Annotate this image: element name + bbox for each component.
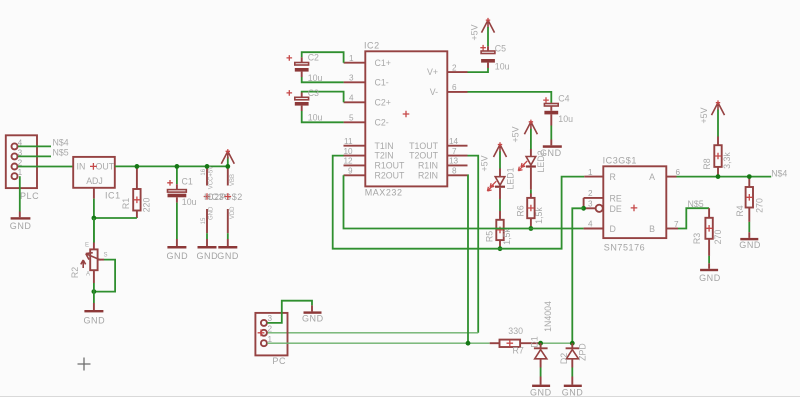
svg-text:220: 220 [141,198,151,213]
capacitor C4 [543,93,573,125]
svg-text:V+: V+ [427,67,438,77]
svg-text:D1: D1 [529,336,539,347]
wire PC pin1 to R7 [267,342,489,344]
svg-text:ZPD: ZPD [577,343,587,361]
bottom edge artifact line [0,396,800,397]
wire IC1 ADJ down [93,188,95,243]
svg-text:GND: GND [84,315,106,325]
connector PC [255,313,287,366]
pin 4 stub (D) [584,220,604,229]
pin 9 stub [344,167,366,176]
power pins IC2P (VCC pin16 / GND pin15) [201,166,226,233]
svg-text:V-: V- [430,87,438,97]
svg-text:N$5: N$5 [53,147,69,157]
svg-text:N$4: N$4 [53,137,69,147]
ground GND (PC) [302,305,324,323]
pin 3 stub (DE) with bubble [584,200,603,212]
supply +5V arrow (LED1) [479,142,506,171]
ground GND (R2) [84,303,106,325]
pin 2 stub [447,63,467,72]
resistor R1 [121,166,152,218]
svg-text:IC3G$1: IC3G$1 [603,156,637,166]
capacitor C1 [167,166,196,239]
wire RE/DE down to D2 [572,208,583,343]
svg-text:RE: RE [610,194,622,204]
svg-text:1N4004: 1N4004 [543,301,553,332]
svg-text:13: 13 [449,157,459,166]
svg-text:3: 3 [268,314,273,323]
ground GND (D2) [562,377,584,397]
pin 10 stub [344,147,366,156]
regulator IC1 [73,157,120,201]
svg-text:10u: 10u [308,73,323,83]
svg-text:+5V: +5V [479,155,489,171]
wire PLC pin4 to N$4 [18,145,51,147]
svg-text:OUT: OUT [96,162,115,172]
ground GND (C4) [540,140,562,158]
svg-text:GND: GND [10,221,32,231]
svg-text:3: 3 [588,200,593,209]
wire R1 bottom to ADJ node [94,217,137,219]
wire IC1 OUT +5V rail [115,165,228,167]
svg-text:GND: GND [167,251,189,261]
svg-text:12: 12 [344,157,354,166]
svg-text:14: 14 [449,137,459,146]
svg-text:GND: GND [217,251,239,261]
ground GND (D1) [530,377,552,397]
svg-text:T2IN: T2IN [375,151,394,161]
wire PLC pin2 to IC1 IN [18,166,73,168]
pin 5 stub [344,114,366,123]
supply +5V arrow (LED2) [510,120,537,149]
svg-text:9: 9 [348,167,353,176]
svg-text:VDD: VDD [230,206,236,219]
svg-text:10: 10 [344,147,354,156]
pin 2 stub (RE) [584,189,604,198]
wire LED1 to R5 [499,199,501,211]
wire B net to R3 [678,208,709,228]
wire PLC pin1 to ground [19,176,21,211]
svg-text:LED2: LED2 [536,150,546,172]
svg-text:2: 2 [268,324,273,333]
svg-text:D2: D2 [559,353,569,364]
pin 7 stub [447,147,467,156]
svg-text:4: 4 [349,94,354,103]
svg-text:T2OUT: T2OUT [409,151,438,161]
svg-text:N$4: N$4 [771,168,787,178]
svg-text:MAX232: MAX232 [365,188,403,198]
svg-text:VCC+5V: VCC+5V [208,166,214,190]
ground GND (IC2P) [197,239,219,261]
pin 6 stub (A) [666,168,680,177]
zener D2 ZPD [559,343,588,367]
svg-text:C2: C2 [308,53,319,63]
resistor R4 [735,177,765,222]
pin 7 stub (B) [666,220,679,229]
wire R2 wiper loop [94,260,115,292]
svg-text:GND: GND [562,388,584,397]
junction R5 bottom [498,246,503,251]
svg-text:R1: R1 [121,198,131,209]
wire R4 to ground [748,222,750,232]
wire C4 to ground [550,126,552,140]
svg-text:1,5k: 1,5k [502,228,512,245]
junction R1 top [135,164,140,169]
op-amp IC2 MAX232 [364,41,447,198]
svg-text:3,3k: 3,3k [722,152,732,169]
supply +5V arrow (C5) [469,18,494,46]
capacitor C2 [287,52,344,83]
ground GND (R4) [739,232,761,250]
svg-text:10u: 10u [495,62,510,72]
wire V- pin6 to C4 [468,92,552,103]
svg-text:R: R [610,172,616,182]
junction R4 top [747,174,752,179]
junction R2IN/PC1 [466,341,471,346]
resistor R8 [702,137,732,177]
LED LED1 [487,167,515,199]
wire T2OUT net (pin7 down to PC pin2) [468,156,479,333]
pin 14 stub [447,137,467,146]
svg-text:GND: GND [530,388,552,397]
pin 1 stub [344,54,366,63]
svg-text:GND: GND [302,313,324,323]
svg-text:A: A [86,272,90,278]
svg-text:1: 1 [18,168,23,177]
junction R6 bottom [529,226,534,231]
junction D1 top [538,341,543,346]
svg-text:R4: R4 [735,205,745,216]
wire IC2P GND pin to ground [206,233,208,239]
svg-text:R8: R8 [702,158,712,169]
svg-text:R7: R7 [513,346,524,356]
svg-text:3: 3 [349,74,354,83]
svg-text:1: 1 [349,54,354,63]
svg-text:C3: C3 [308,88,319,98]
svg-text:11: 11 [344,137,353,146]
wire LED2 to R6 [530,190,532,194]
svg-text:1: 1 [268,335,273,344]
pin 3 stub [344,74,366,83]
svg-text:+5V: +5V [510,126,520,142]
svg-text:PLC: PLC [20,191,39,201]
origin cross mark [78,358,91,371]
resistor R5 [484,211,512,249]
svg-text:S: S [104,253,108,259]
svg-text:LED1: LED1 [505,167,515,189]
wire R3 to ground [708,256,710,263]
svg-text:R1OUT: R1OUT [375,161,405,171]
transceiver IC3 SN75176 [603,156,667,253]
wire T2IN net (pin10 to IC3 R via R5) [333,156,585,249]
wire A net to N$4 [677,176,772,178]
svg-text:A: A [649,172,655,182]
wire IC3G$2 VDD to ground [227,233,229,239]
ground GND (IC3G$2) [217,239,239,261]
pin 4 stub [344,94,366,103]
svg-text:GND: GND [197,251,219,261]
svg-text:R2OUT: R2OUT [375,170,405,180]
link RE-DE [583,198,585,208]
wire R2 to ground [93,283,95,303]
svg-text:GND: GND [208,206,214,220]
svg-text:+5V: +5V [469,24,479,40]
pin 1 stub (R) [584,168,603,177]
junction ADJ/R1 [92,216,97,221]
svg-text:330: 330 [508,326,523,336]
svg-text:IN: IN [77,162,86,172]
supply +5V arrow (R8) [699,100,725,136]
wire C5 to V+ pin2 [468,68,489,72]
wire D2 to ground [571,368,573,377]
svg-text:SN75176: SN75176 [604,243,645,253]
svg-text:C4: C4 [558,93,569,103]
resistor R3 [692,208,723,256]
svg-text:1,5k: 1,5k [534,207,544,224]
svg-text:GND: GND [739,240,761,250]
svg-text:6: 6 [452,83,457,92]
svg-text:15: 15 [201,217,207,224]
svg-text:C1: C1 [182,177,193,187]
wire R7 to D1/D2 [541,342,573,344]
junction IC2P VCC [205,164,210,169]
svg-text:T1IN: T1IN [375,141,394,151]
svg-text:C2+: C2+ [375,97,391,107]
potentiometer R2 [70,243,108,284]
svg-text:DE: DE [610,204,622,214]
svg-text:N$5: N$5 [688,199,704,209]
svg-text:270: 270 [713,230,723,245]
wire PLC pin3 to N$5 [18,155,51,157]
resistor R6 [515,194,544,229]
svg-text:2: 2 [452,63,457,72]
svg-text:R2: R2 [70,267,80,278]
LED LED2 [518,149,546,190]
wire R2IN net (pin8 down to R7 node) [467,175,470,343]
svg-text:VBB: VBB [230,174,236,186]
svg-text:1: 1 [588,168,593,177]
junction C1 top [175,164,180,169]
svg-text:D: D [610,224,616,234]
svg-text:10u: 10u [558,114,573,124]
wire D1 to ground [540,368,542,377]
pin 6 stub [447,83,467,92]
svg-text:16: 16 [201,168,207,175]
capacitor C3 [287,88,344,122]
junction rail end [225,164,230,169]
svg-text:C1-: C1- [375,77,389,87]
capacitor C5 [480,44,509,72]
svg-text:10u: 10u [182,197,197,207]
pin 13 stub [447,157,467,166]
svg-text:R1IN: R1IN [418,161,438,171]
power pins IC3G$2 (VBB / VDD) [209,167,243,233]
svg-text:PC: PC [272,356,286,366]
svg-text:R2IN: R2IN [418,170,438,180]
ground GND (R3) [699,263,721,283]
svg-text:270: 270 [754,198,764,213]
svg-text:2: 2 [588,189,593,198]
wire R2OUT net (pin9 to IC3 D via R6) [344,175,584,228]
svg-text:IC1: IC1 [105,191,121,201]
svg-text:5: 5 [349,114,354,123]
svg-text:+5V: +5V [699,107,709,123]
svg-text:T1OUT: T1OUT [409,141,438,151]
pin 11 stub [344,137,366,146]
svg-text:10u: 10u [308,112,323,122]
supply +5V arrow (rail end) [221,149,234,166]
svg-text:C5: C5 [495,44,506,54]
svg-text:7: 7 [452,147,457,156]
svg-text:6: 6 [676,168,681,177]
wire ADJ node down to R2 [93,218,95,243]
pin 12 stub [344,157,366,166]
svg-text:IC2: IC2 [364,41,380,51]
diode D1 1N4004 [529,301,553,368]
ground GND (PLC) [10,212,32,231]
svg-text:C1+: C1+ [375,58,391,68]
svg-text:4: 4 [588,220,593,229]
junction R8 bottom [716,174,721,179]
svg-text:8: 8 [452,167,457,176]
connector PLC [6,135,39,201]
pin 8 stub [447,167,467,176]
ground GND (C1) [167,239,189,261]
svg-text:R3: R3 [692,233,702,244]
svg-text:ADJ: ADJ [86,176,103,186]
resistor R7 [490,326,539,355]
junction D2 top [570,341,575,346]
svg-text:B: B [649,224,655,234]
svg-text:R5: R5 [484,231,494,242]
svg-text:GND: GND [699,273,721,283]
svg-text:E: E [85,243,89,249]
wire PC pin3 to ground [267,301,312,323]
svg-text:C2-: C2- [375,117,389,127]
junction R2 bottom [92,289,97,294]
svg-text:R6: R6 [515,205,525,216]
junction RE/DE [581,206,586,211]
